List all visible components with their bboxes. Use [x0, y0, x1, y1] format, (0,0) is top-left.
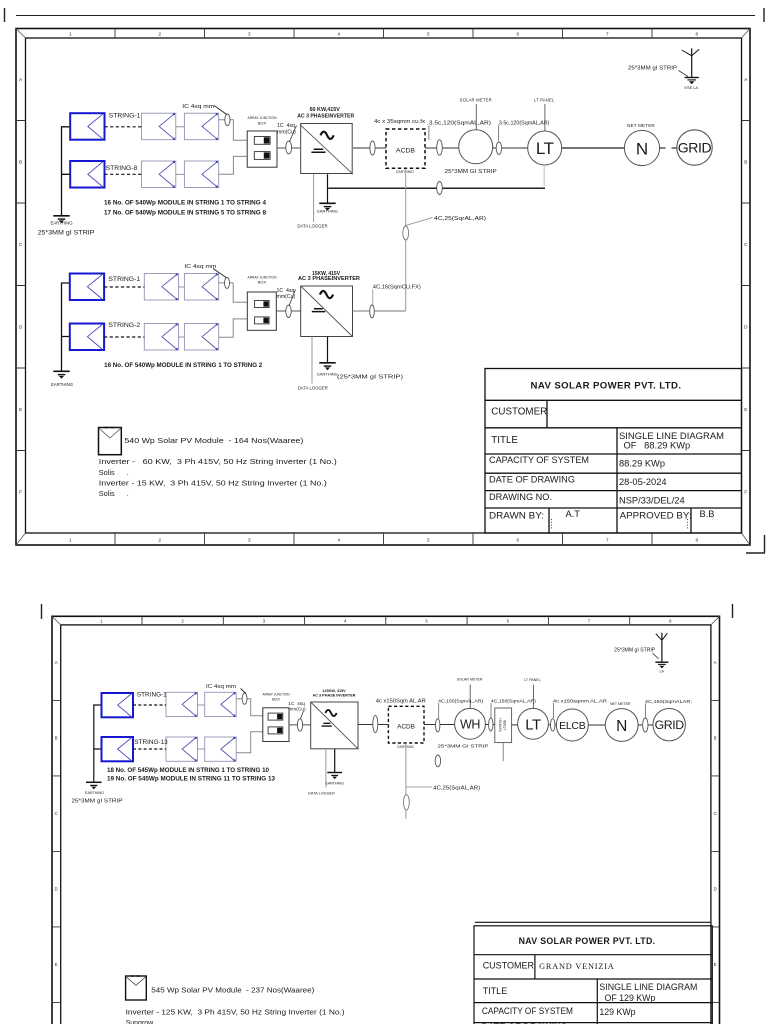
- svg-text:4C,25(SqrAL,AR): 4C,25(SqrAL,AR): [434, 216, 486, 222]
- svg-text:AC 3 PHASEINVERTER: AC 3 PHASEINVERTER: [297, 114, 355, 120]
- svg-text:Inverter - 60 KW, 3 Ph 415V: Inverter - 60 KW, 3 Ph 415V, 50 Hz Strin…: [99, 457, 337, 466]
- svg-text:Sungrow.: Sungrow.: [126, 1020, 155, 1024]
- svg-text:EARTHING: EARTHING: [50, 221, 73, 226]
- svg-text:D: D: [55, 887, 58, 892]
- svg-text:F: F: [744, 489, 747, 494]
- svg-text:AC 3 PHASEINVERTER: AC 3 PHASEINVERTER: [298, 276, 360, 282]
- svg-text:28-05-2024: 28-05-2024: [619, 477, 667, 487]
- svg-text:STRING-1: STRING-1: [137, 692, 167, 699]
- svg-text:25*3MM gI STRIP: 25*3MM gI STRIP: [72, 799, 123, 805]
- svg-text:LT PANEL: LT PANEL: [524, 678, 540, 682]
- svg-text:F: F: [19, 489, 22, 494]
- svg-text:BOX: BOX: [258, 280, 267, 285]
- svg-text:1: 1: [69, 31, 72, 36]
- svg-text:4C,150(SqmAL,AR): 4C,150(SqmAL,AR): [438, 698, 484, 703]
- svg-text:BOX: BOX: [258, 120, 267, 125]
- svg-text:17 No. OF 540Wp MODULE IN STRI: 17 No. OF 540Wp MODULE IN STRING 5 TO ST…: [104, 209, 267, 216]
- svg-text:LT: LT: [536, 139, 554, 158]
- svg-text:N: N: [636, 140, 648, 159]
- svg-text:CAPACITY OF SYSTEM: CAPACITY OF SYSTEM: [489, 455, 589, 466]
- svg-text:E: E: [744, 407, 747, 412]
- svg-text:1C 4sq: 1C 4sq: [288, 701, 305, 707]
- svg-text:.3.5c,120(SqmAL,AR): .3.5c,120(SqmAL,AR): [427, 121, 491, 127]
- svg-text:19 No. OF 545Wp MODULE IN STRI: 19 No. OF 545Wp MODULE IN STRING 11 TO S…: [107, 776, 276, 782]
- svg-text:E: E: [19, 407, 22, 412]
- svg-text:SINGLE LINE DIAGRAM: SINGLE LINE DIAGRAM: [599, 982, 697, 992]
- svg-text:DATA LOGGER: DATA LOGGER: [298, 386, 328, 391]
- svg-text:5: 5: [427, 31, 430, 36]
- svg-text:SOLAR METER: SOLAR METER: [460, 98, 492, 103]
- svg-text:A: A: [55, 660, 58, 665]
- svg-text:DATE OF DRAWING: DATE OF DRAWING: [489, 475, 575, 486]
- svg-text:ELCB: ELCB: [559, 720, 586, 732]
- svg-text:B: B: [714, 736, 717, 741]
- svg-text:16 No. OF 540Wp MODULE IN STRI: 16 No. OF 540Wp MODULE IN STRING 1 TO ST…: [104, 199, 267, 206]
- svg-text:8: 8: [696, 31, 699, 36]
- svg-text:2: 2: [159, 538, 162, 543]
- svg-text:DRAWING NO.: DRAWING NO.: [489, 492, 552, 503]
- svg-text:AC 3 PHASE INVERTER: AC 3 PHASE INVERTER: [312, 694, 355, 698]
- svg-text:EARTHING: EARTHING: [51, 382, 74, 387]
- svg-text:IC 4sq mm: IC 4sq mm: [182, 104, 215, 110]
- svg-text:2: 2: [159, 31, 162, 36]
- svg-text:A: A: [714, 660, 717, 665]
- svg-text:E: E: [55, 962, 58, 967]
- svg-text:25*3MM gI STRIP: 25*3MM gI STRIP: [614, 648, 656, 654]
- svg-text:EARTHING: EARTHING: [317, 209, 338, 214]
- svg-text:25*3MM GI STRIP: 25*3MM GI STRIP: [438, 744, 489, 749]
- svg-text:NET METER: NET METER: [610, 702, 631, 706]
- svg-text:DRAWN BY:: DRAWN BY:: [489, 511, 544, 522]
- svg-text:B: B: [55, 736, 58, 741]
- svg-text:16 No. OF 540Wp MODULE IN STRI: 16 No. OF 540Wp MODULE IN STRING 1 TO ST…: [104, 362, 263, 369]
- svg-text:NAV SOLAR POWER PVT. LTD.: NAV SOLAR POWER PVT. LTD.: [531, 381, 682, 392]
- svg-text:4c x150Sqm AL.AR: 4c x150Sqm AL.AR: [376, 699, 426, 705]
- svg-text:STRING-1: STRING-1: [109, 113, 141, 120]
- svg-text:EARTHING: EARTHING: [396, 170, 414, 174]
- svg-text:1: 1: [69, 538, 72, 543]
- svg-text:EARTHING: EARTHING: [325, 781, 344, 785]
- svg-text:8: 8: [696, 538, 699, 543]
- svg-text:TITLE: TITLE: [483, 986, 508, 996]
- svg-text:STRING-8: STRING-8: [106, 165, 138, 172]
- svg-text:LT PANEL: LT PANEL: [534, 98, 555, 103]
- svg-text:4c x150sqmm AL.AR: 4c x150sqmm AL.AR: [553, 698, 608, 704]
- svg-text:OF 88.29 KWp: OF 88.29 KWp: [624, 441, 691, 451]
- svg-text:6: 6: [517, 31, 520, 36]
- svg-text:SWITCH: SWITCH: [499, 718, 503, 732]
- svg-text:LT/GB: LT/GB: [503, 719, 507, 729]
- svg-text:NSP/33/DEL/24: NSP/33/DEL/24: [619, 496, 685, 506]
- svg-text:GRAND VENIZIA: GRAND VENIZIA: [539, 962, 614, 971]
- svg-text:CUSTOMER: CUSTOMER: [483, 961, 535, 971]
- svg-text:7: 7: [606, 31, 609, 36]
- svg-text:125KW, 415V: 125KW, 415V: [322, 689, 346, 693]
- svg-text:4C,150(SqmAL,AR): 4C,150(SqmAL,AR): [491, 698, 537, 703]
- svg-text:CUSTOMER: CUSTOMER: [491, 407, 547, 418]
- svg-text:GRID: GRID: [678, 140, 712, 156]
- svg-text:.3.5c,120(SqmAL,AR): .3.5c,120(SqmAL,AR): [497, 121, 549, 127]
- svg-text:540 Wp Solar PV Module - 164: 540 Wp Solar PV Module - 164 Nos(Waaree): [124, 436, 303, 445]
- svg-text:LA: LA: [659, 669, 664, 673]
- svg-text:4c x 35sqmm cu.fx: 4c x 35sqmm cu.fx: [374, 119, 425, 125]
- svg-text:25*3MM GI STRIP: 25*3MM GI STRIP: [445, 169, 498, 175]
- svg-text:4C,16(SqmCU,FX): 4C,16(SqmCU,FX): [373, 284, 421, 290]
- svg-text:5: 5: [427, 538, 430, 543]
- svg-text:ARRAY JUNCTION: ARRAY JUNCTION: [248, 115, 277, 120]
- svg-text:1C 4sq: 1C 4sq: [277, 123, 295, 129]
- svg-text:WH: WH: [460, 718, 480, 732]
- svg-text:SOLAR METER: SOLAR METER: [457, 678, 483, 682]
- svg-text:Inverter - 125 KW, 3 Ph 415V,: Inverter - 125 KW, 3 Ph 415V, 50 Hz Stri…: [126, 1010, 345, 1017]
- svg-text:ARRAY JUNCTION: ARRAY JUNCTION: [263, 693, 290, 697]
- svg-text:C: C: [714, 811, 717, 816]
- svg-text:EARTHING: EARTHING: [85, 791, 104, 795]
- svg-text:25*3MM gI STRIP: 25*3MM gI STRIP: [628, 65, 678, 71]
- svg-text:IC 4sq mm: IC 4sq mm: [184, 264, 217, 270]
- svg-text:25*3MM gI STRIP: 25*3MM gI STRIP: [38, 231, 95, 237]
- svg-text:Solis .: Solis .: [99, 489, 129, 498]
- svg-text:NAV SOLAR POWER PVT. LTD.: NAV SOLAR POWER PVT. LTD.: [519, 936, 656, 946]
- svg-text:E: E: [714, 962, 717, 967]
- svg-text:STRING-13: STRING-13: [134, 739, 168, 746]
- svg-text:A.T: A.T: [566, 509, 581, 519]
- svg-text:B: B: [19, 159, 22, 164]
- svg-text:7: 7: [606, 538, 609, 543]
- svg-text:18 No. OF 545Wp MODULE IN STRI: 18 No. OF 545Wp MODULE IN STRING 1 TO ST…: [107, 768, 270, 774]
- svg-text:Solis .: Solis .: [99, 468, 129, 477]
- svg-text:IC 4sq mm: IC 4sq mm: [206, 684, 236, 690]
- svg-text:C: C: [55, 811, 58, 816]
- svg-text:88.29 KWp: 88.29 KWp: [619, 459, 665, 469]
- svg-text:DATA LOGGER: DATA LOGGER: [308, 792, 335, 796]
- svg-text:B: B: [744, 159, 747, 164]
- svg-text:N: N: [616, 718, 627, 735]
- svg-text:(25*3MM gI STRIP): (25*3MM gI STRIP): [337, 375, 403, 381]
- svg-text:4C,25(SqrAL,AR): 4C,25(SqrAL,AR): [433, 786, 480, 792]
- svg-text:LT: LT: [525, 716, 541, 733]
- svg-text:3: 3: [248, 538, 251, 543]
- svg-text:ACDB: ACDB: [396, 148, 415, 155]
- svg-text:Inverter - 15 KW, 3 Ph 415V,: Inverter - 15 KW, 3 Ph 415V, 50 Hz Strin…: [99, 478, 327, 487]
- svg-text:OF 129 KWp: OF 129 KWp: [605, 993, 656, 1003]
- svg-text:4: 4: [338, 538, 341, 543]
- svg-text:4C,150(SqmALAR:: 4C,150(SqmALAR:: [645, 699, 692, 704]
- svg-text:60 KW,415V: 60 KW,415V: [310, 107, 341, 113]
- svg-text:D: D: [714, 887, 717, 892]
- svg-text:GRID: GRID: [655, 718, 685, 732]
- svg-text:STRING-2: STRING-2: [108, 322, 140, 329]
- svg-text:DATA LOGGER: DATA LOGGER: [297, 223, 327, 228]
- svg-text:STRING-1: STRING-1: [108, 276, 140, 283]
- svg-text:CAPACITY OF SYSTEM: CAPACITY OF SYSTEM: [482, 1006, 573, 1016]
- svg-text:TITLE: TITLE: [491, 435, 518, 446]
- svg-text:BOX: BOX: [272, 697, 280, 701]
- svg-text:4: 4: [338, 31, 341, 36]
- svg-text:6: 6: [517, 538, 520, 543]
- svg-text:APPROVED BY:: APPROVED BY:: [620, 511, 692, 522]
- svg-text:545 Wp Solar PV Module - 237: 545 Wp Solar PV Module - 237 Nos(Waaree): [151, 988, 314, 995]
- svg-text:EARTHING: EARTHING: [317, 372, 338, 377]
- svg-text:NET METER: NET METER: [627, 123, 655, 128]
- svg-text:B.B: B.B: [700, 509, 715, 519]
- svg-text:129 KWp: 129 KWp: [599, 1007, 635, 1017]
- svg-text:ACDB: ACDB: [397, 724, 415, 731]
- svg-text:ESE LA: ESE LA: [684, 85, 698, 90]
- svg-text:3: 3: [248, 31, 251, 36]
